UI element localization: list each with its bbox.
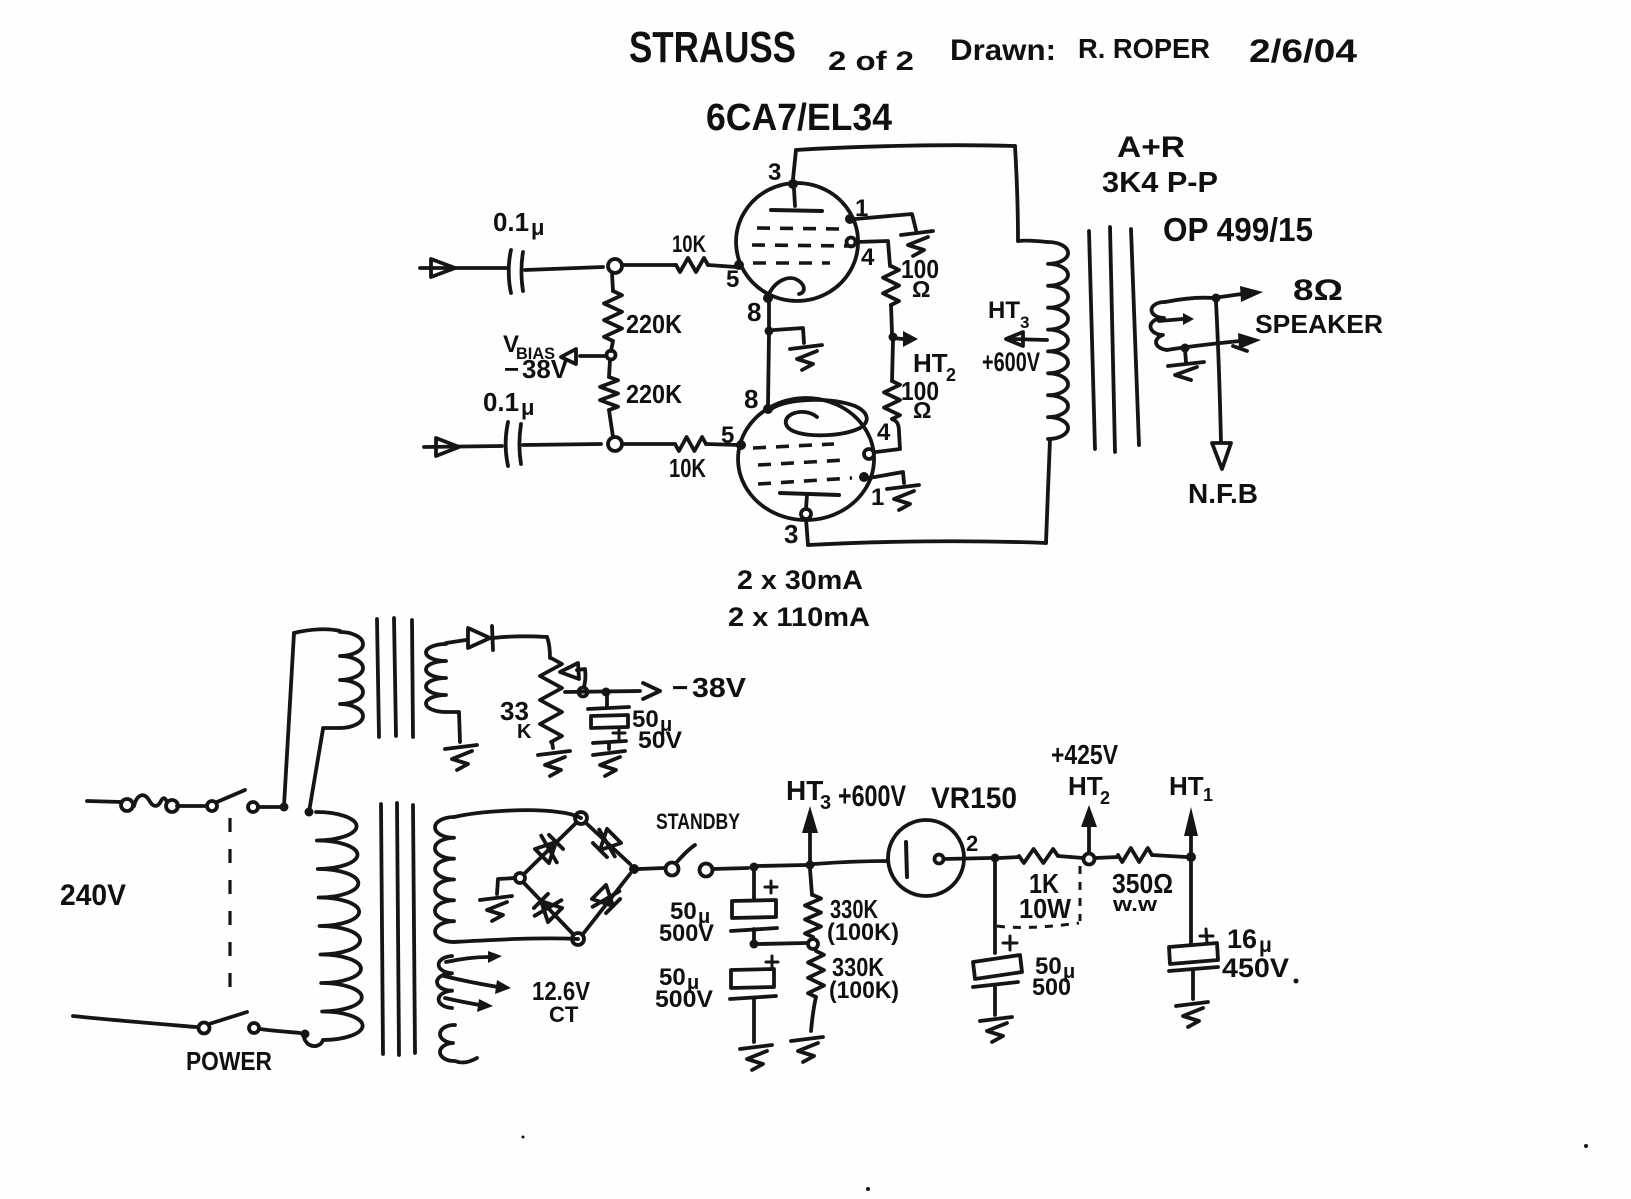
svg-text:10K: 10K xyxy=(672,231,707,258)
svg-text:220K: 220K xyxy=(626,309,682,339)
svg-text:(100K): (100K) xyxy=(829,977,899,1004)
svg-text:10W: 10W xyxy=(1019,893,1072,924)
svg-text:2: 2 xyxy=(1100,788,1110,808)
svg-text:Ω: Ω xyxy=(913,397,931,423)
svg-text:Ω: Ω xyxy=(912,276,930,302)
svg-text:8: 8 xyxy=(744,384,758,414)
svg-text:3K4 P-P: 3K4 P-P xyxy=(1102,167,1218,199)
svg-text:500V: 500V xyxy=(655,986,713,1013)
svg-text:VR150: VR150 xyxy=(931,782,1017,815)
svg-text:(100K): (100K) xyxy=(827,919,899,946)
svg-text:3: 3 xyxy=(768,159,781,186)
svg-text:2/6/04: 2/6/04 xyxy=(1249,33,1357,69)
svg-text:10K: 10K xyxy=(669,453,706,483)
svg-text:HT: HT xyxy=(1169,771,1204,801)
svg-text:0.1: 0.1 xyxy=(493,207,529,237)
svg-text:50V: 50V xyxy=(638,727,682,754)
svg-text:38V: 38V xyxy=(692,672,746,703)
svg-text:8Ω: 8Ω xyxy=(1293,274,1343,307)
svg-text:μ: μ xyxy=(531,215,544,240)
svg-text:220K: 220K xyxy=(626,379,682,409)
svg-text:16: 16 xyxy=(1227,924,1257,954)
svg-text:w.w: w.w xyxy=(1112,894,1158,916)
svg-text:Drawn:: Drawn: xyxy=(950,34,1056,67)
svg-text:STANDBY: STANDBY xyxy=(656,809,740,834)
svg-text:SPEAKER: SPEAKER xyxy=(1255,309,1383,339)
svg-text:K: K xyxy=(517,721,532,743)
svg-text:HT: HT xyxy=(913,348,948,378)
svg-text:8: 8 xyxy=(747,297,761,327)
svg-text:500V: 500V xyxy=(659,920,714,947)
svg-text:1: 1 xyxy=(871,484,884,511)
svg-text:N.F.B: N.F.B xyxy=(1188,478,1258,509)
svg-text:2 x 30mA: 2 x 30mA xyxy=(737,565,863,595)
svg-text:3: 3 xyxy=(820,792,831,814)
svg-text:2 of 2: 2 of 2 xyxy=(828,46,914,76)
svg-text:OP 499/15: OP 499/15 xyxy=(1163,211,1313,248)
svg-text:HT: HT xyxy=(1068,771,1103,801)
svg-text:5: 5 xyxy=(726,266,739,293)
svg-text:+600V: +600V xyxy=(838,780,906,813)
svg-text:6CA7/EL34: 6CA7/EL34 xyxy=(706,97,892,139)
svg-text:HT: HT xyxy=(786,775,823,806)
svg-text:−: − xyxy=(672,672,688,703)
svg-text:4: 4 xyxy=(877,419,891,446)
svg-text:38V: 38V xyxy=(522,354,569,384)
svg-text:5: 5 xyxy=(721,422,734,449)
svg-text:2 x 110mA: 2 x 110mA xyxy=(728,602,870,632)
svg-text:+600V: +600V xyxy=(982,347,1040,377)
svg-text:450V: 450V xyxy=(1222,953,1289,983)
svg-text:POWER: POWER xyxy=(186,1046,272,1076)
svg-text:+425V: +425V xyxy=(1051,739,1118,770)
svg-text:3: 3 xyxy=(1020,313,1029,332)
svg-text:HT: HT xyxy=(988,297,1020,324)
svg-text:R. ROPER: R. ROPER xyxy=(1078,33,1210,64)
svg-text:CT: CT xyxy=(549,1002,579,1027)
svg-text:240V: 240V xyxy=(60,879,126,912)
svg-text:500: 500 xyxy=(1032,974,1071,1001)
svg-text:2: 2 xyxy=(946,365,956,385)
svg-text:1: 1 xyxy=(855,195,868,222)
svg-text:3: 3 xyxy=(784,519,798,549)
svg-text:A+R: A+R xyxy=(1117,131,1185,164)
svg-text:−: − xyxy=(504,354,519,384)
svg-text:μ: μ xyxy=(521,395,534,420)
svg-text:STRAUSS: STRAUSS xyxy=(629,23,796,72)
svg-text:2: 2 xyxy=(966,831,978,856)
svg-text:1: 1 xyxy=(1203,785,1213,805)
svg-text:0.1: 0.1 xyxy=(483,387,519,417)
svg-text:4: 4 xyxy=(861,244,875,271)
